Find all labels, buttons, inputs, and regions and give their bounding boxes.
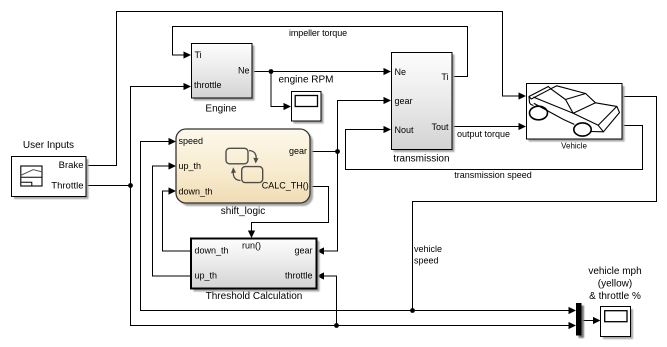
block Engine <box>192 44 255 101</box>
arrowhead into shift_logic speed <box>169 138 177 145</box>
svg-text:Tout: Tout <box>431 122 449 132</box>
junction dot gear <box>335 149 340 154</box>
block Threshold Calculation <box>191 239 320 292</box>
arrowhead into transmission Nout <box>384 126 392 133</box>
svg-text:transmission speed: transmission speed <box>454 170 532 180</box>
svg-text:down_th: down_th <box>195 246 229 256</box>
svg-text:Threshold Calculation: Threshold Calculation <box>206 291 303 302</box>
wire: Engine Ne to transmission Ne <box>252 71 385 73</box>
svg-text:gear: gear <box>294 246 312 256</box>
svg-text:(yellow): (yellow) <box>598 278 632 289</box>
svg-text:Throttle: Throttle <box>51 180 83 191</box>
wire: transmission Tout to Vehicle in2 (output torque) <box>452 126 520 128</box>
wire: Throttle from User Inputs to junction <box>86 185 131 187</box>
arrowhead into Engine throttle <box>184 83 192 90</box>
svg-text:transmission: transmission <box>393 153 449 164</box>
car icon front wheel <box>530 106 548 120</box>
svg-text:speed: speed <box>414 256 439 266</box>
svg-text:impeller torque: impeller torque <box>289 28 347 38</box>
wire: throttle branch down along bottom to Mux in2 <box>131 186 571 326</box>
svg-text:Vehicle: Vehicle <box>561 142 587 151</box>
wire: Ne branch down to engine RPM scope <box>271 72 285 107</box>
arrowhead into Vehicle in1 <box>519 92 527 99</box>
wire: Brake from User Inputs up over top to Vehicle in1 <box>86 12 519 166</box>
junction dot throttle at User Inputs level <box>128 183 133 188</box>
junction dot Ne <box>269 69 274 74</box>
stateflow icon transition arrows <box>249 151 256 162</box>
block transmission <box>392 53 455 153</box>
svg-text:output torque: output torque <box>457 129 510 139</box>
arrowhead into Threshold throttle (pointing left) <box>317 272 325 279</box>
block Vehicle <box>527 84 625 142</box>
svg-text:gear: gear <box>289 146 307 156</box>
Mux block <box>576 303 584 338</box>
svg-text:CALC_TH(): CALC_TH() <box>262 181 309 191</box>
svg-text:Ti: Ti <box>195 50 202 60</box>
svg-text:up_th: up_th <box>179 161 202 171</box>
signal builder icon <box>21 166 42 186</box>
arrowhead into Threshold run() trigger (pointing down) <box>248 231 255 239</box>
wire: Threshold down_th output to shift_logic down_th <box>163 191 191 251</box>
block vehicle mph scope <box>601 307 634 340</box>
wire: vehicle speed left branch to shift_logic speed <box>141 142 413 311</box>
svg-text:Nout: Nout <box>395 125 415 135</box>
svg-text:Engine: Engine <box>205 103 237 114</box>
arrowhead into transmission Ne <box>384 68 392 75</box>
arrowhead into Engine Ti <box>184 51 192 58</box>
junction dot vehicle speed <box>410 308 415 313</box>
svg-text:up_th: up_th <box>195 271 218 281</box>
arrowhead into vehicle mph Scope <box>593 317 601 324</box>
arrowhead into shift_logic up_th <box>169 162 177 169</box>
svg-text:Brake: Brake <box>59 160 84 171</box>
svg-text:throttle: throttle <box>194 80 222 90</box>
svg-text:Ne: Ne <box>395 67 407 77</box>
arrowhead into Mux in2 <box>569 322 577 329</box>
wire: Threshold up_th output to shift_logic up_th <box>153 166 191 276</box>
car icon body lines <box>529 86 620 132</box>
svg-text:engine RPM: engine RPM <box>278 75 333 86</box>
block engine RPM scope <box>292 92 324 124</box>
stateflow icon state 2 <box>242 167 263 183</box>
wire: Vehicle out1 vehicle speed long feedback <box>413 97 657 311</box>
svg-text:down_th: down_th <box>179 186 213 196</box>
svg-text:shift_logic: shift_logic <box>221 206 265 217</box>
arrowhead into Mux in1 <box>569 307 577 314</box>
wire: throttle branch up to Engine throttle <box>131 87 186 186</box>
arrowhead into transmission gear <box>384 97 392 104</box>
svg-text:& throttle %: & throttle % <box>589 291 641 302</box>
svg-text:run(): run() <box>242 240 261 250</box>
svg-text:gear: gear <box>395 96 413 106</box>
wire: vehicle speed right branch to Mux in1 <box>413 310 571 312</box>
arrowhead into Threshold gear (pointing left) <box>317 247 325 254</box>
wire: Vehicle out2 transmission speed feedback to transmission Nout <box>346 126 643 170</box>
block shift_logic (Stateflow chart) <box>176 129 313 206</box>
wire: gear branch up to transmission gear <box>338 101 386 152</box>
arrowhead into Vehicle in2 <box>519 123 527 130</box>
arrowhead into engine RPM scope <box>284 103 292 110</box>
wire: throttle branch up into Threshold Calculation throttle <box>324 276 337 326</box>
svg-text:Ne: Ne <box>238 66 250 76</box>
junction dot throttle lower <box>334 323 339 328</box>
wire: gear branch down to Threshold Calculation gear <box>324 152 338 252</box>
wire: CALC_TH() to run() trigger of Threshold Calculation <box>252 187 329 232</box>
wire: impeller torque feedback transmission Ti to Engine Ti <box>173 27 468 77</box>
wire: Mux output to Scope <box>582 320 594 322</box>
wire: shift_logic gear output to junction <box>310 151 338 153</box>
arrowhead into shift_logic down_th <box>169 187 177 194</box>
svg-text:throttle: throttle <box>285 271 313 281</box>
svg-text:User Inputs: User Inputs <box>23 140 74 151</box>
svg-text:speed: speed <box>179 136 204 146</box>
svg-text:vehicle: vehicle <box>414 244 442 254</box>
block User Inputs (Signal Builder) <box>12 157 89 200</box>
svg-text:vehicle mph: vehicle mph <box>588 266 641 277</box>
svg-text:Ti: Ti <box>441 72 448 82</box>
car icon rear wheel <box>574 123 591 136</box>
stateflow icon state 1 <box>226 148 248 164</box>
